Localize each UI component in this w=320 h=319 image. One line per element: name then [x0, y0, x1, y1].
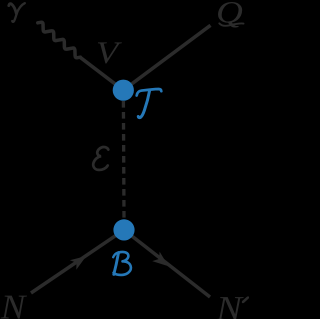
label N: [1, 296, 27, 319]
dashed exchange line E: [122, 101, 126, 219]
label N': [216, 297, 244, 319]
wire Q line: [123, 25, 210, 90]
vertex B (lower blue circle): [113, 219, 134, 240]
label script E: [93, 147, 108, 170]
label Q: [218, 2, 242, 28]
arrow on N line (toward vertex): [70, 256, 87, 270]
label N prime tick: [242, 296, 249, 303]
label gamma: [9, 3, 25, 22]
wire N incoming line: [31, 230, 124, 293]
wire V line (vector meson): [80, 57, 124, 90]
label script B: [113, 252, 131, 275]
label Q tail swash: [219, 23, 243, 25]
photon wavy line (gamma propagator): [38, 22, 81, 58]
label V: [98, 42, 122, 63]
vertex T (upper blue circle): [113, 80, 134, 101]
label script T: [137, 89, 162, 118]
arrow on N' line (away from vertex): [152, 252, 168, 267]
wire N' outgoing line: [124, 230, 210, 297]
